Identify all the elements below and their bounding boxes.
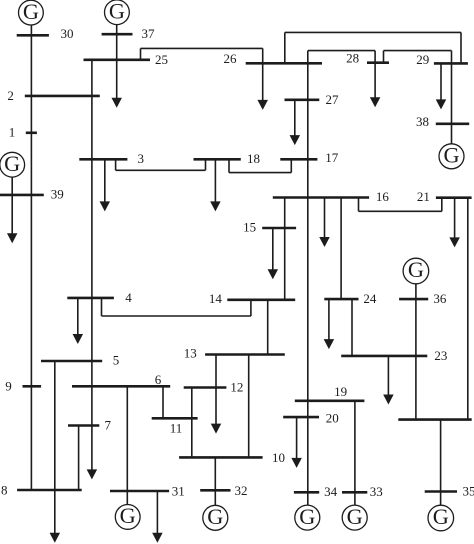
svg-text:G: G (23, 0, 39, 24)
svg-text:G: G (408, 257, 424, 282)
svg-text:9: 9 (5, 379, 12, 394)
svg-text:35: 35 (463, 483, 474, 498)
svg-text:G: G (4, 151, 20, 176)
svg-text:16: 16 (376, 189, 390, 204)
svg-text:G: G (109, 0, 125, 23)
svg-text:G: G (207, 504, 223, 529)
svg-text:15: 15 (243, 220, 256, 235)
svg-text:G: G (299, 504, 315, 529)
svg-text:1: 1 (9, 124, 16, 139)
svg-text:14: 14 (209, 291, 223, 306)
svg-text:36: 36 (433, 291, 447, 306)
svg-text:28: 28 (346, 51, 359, 66)
svg-text:31: 31 (172, 484, 185, 499)
svg-text:13: 13 (184, 346, 197, 361)
svg-text:37: 37 (142, 26, 156, 41)
svg-text:8: 8 (1, 483, 8, 498)
svg-text:24: 24 (363, 291, 377, 306)
svg-text:20: 20 (326, 410, 339, 425)
svg-text:27: 27 (326, 92, 340, 107)
svg-text:26: 26 (224, 51, 238, 66)
svg-text:G: G (120, 503, 136, 528)
svg-text:34: 34 (324, 484, 338, 499)
svg-text:5: 5 (113, 353, 120, 368)
svg-text:4: 4 (125, 290, 132, 305)
svg-text:10: 10 (272, 450, 285, 465)
svg-text:7: 7 (104, 417, 111, 432)
svg-text:30: 30 (61, 26, 74, 41)
svg-text:12: 12 (230, 380, 243, 395)
svg-text:18: 18 (247, 151, 260, 166)
svg-text:G: G (433, 504, 449, 529)
svg-text:25: 25 (155, 52, 168, 67)
svg-text:29: 29 (416, 52, 429, 67)
svg-text:21: 21 (417, 189, 430, 204)
svg-text:23: 23 (434, 348, 447, 363)
svg-text:6: 6 (155, 372, 162, 387)
svg-text:3: 3 (137, 151, 144, 166)
svg-text:32: 32 (235, 483, 248, 498)
svg-text:19: 19 (334, 384, 347, 399)
svg-text:17: 17 (325, 150, 339, 165)
svg-text:39: 39 (51, 187, 64, 202)
svg-text:2: 2 (7, 88, 14, 103)
svg-text:33: 33 (370, 484, 383, 499)
svg-text:38: 38 (416, 114, 429, 129)
svg-text:G: G (347, 504, 363, 529)
svg-text:G: G (443, 143, 459, 168)
svg-text:11: 11 (170, 420, 183, 435)
